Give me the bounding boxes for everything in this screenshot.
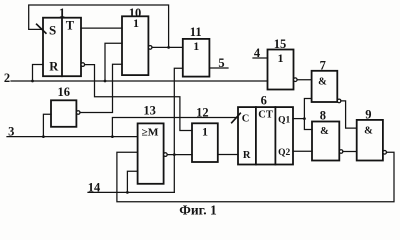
gate 15 box (268, 50, 294, 90)
wire Q1 branch to lower input of gate 7 (304, 99, 311, 119)
svg-text:&: & (364, 125, 373, 136)
wire output of gate 15 to upper input of gate 7 (297, 79, 312, 81)
wire Q1 branch to upper input of gate 8 (304, 119, 312, 130)
gate 10 box (122, 16, 148, 75)
svg-text:9: 9 (365, 107, 371, 121)
wire branch 14 to third input of element 13 (127, 171, 137, 192)
svg-text:CT: CT (258, 110, 273, 121)
svg-text:6: 6 (261, 94, 267, 108)
svg-text:1: 1 (193, 39, 199, 53)
node A junction on gate 10 output (167, 46, 170, 49)
output bubble of gate 9 (383, 151, 387, 155)
junction on element 13 output net (173, 153, 176, 156)
dynamic input slash on C of counter 6 (232, 113, 241, 122)
wire branch 3 to C input of counter 6 (112, 118, 238, 137)
svg-text:1: 1 (133, 16, 139, 30)
wire output of gate 10 to input of gate 11 (152, 46, 183, 48)
input terminal wire 3 (7, 136, 138, 138)
wire output of element 13 to lower input of gate 12 (167, 154, 192, 156)
wire branch 2 to middle input of gate 10 (105, 43, 122, 81)
gate 9 box (357, 120, 383, 161)
counter 6 left divider (255, 107, 257, 164)
wire net element 13 output to lower input of gate 11 and to wire 14 (174, 68, 183, 192)
svg-text:3: 3 (8, 125, 14, 139)
wire T output of trigger 1 to input of gate 10 (81, 27, 122, 29)
svg-text:14: 14 (88, 180, 101, 194)
wire output of gate 8 to lower input of gate 9 (343, 151, 357, 153)
output bubble of gate 8 (339, 150, 343, 154)
svg-text:≥M: ≥M (142, 128, 159, 139)
svg-text:12: 12 (196, 106, 209, 120)
counter 6 right divider (274, 107, 276, 164)
svg-text:C: C (242, 114, 250, 125)
junction on wire 3 at gate 16 branch (42, 135, 45, 138)
wire branch 3 to input of gate 16 (43, 114, 51, 136)
svg-text:15: 15 (274, 37, 287, 51)
svg-text:Фиг. 1: Фиг. 1 (179, 203, 217, 218)
gate 16 box (51, 100, 76, 127)
gate 11 box (183, 39, 210, 77)
dynamic input slash on S of trigger 1 (37, 24, 46, 33)
junction on wire 2 at gate 10 branch (104, 80, 107, 83)
junction on wire 2 at R branch (31, 80, 34, 83)
wire branch 2 to R input of trigger 1 (33, 65, 44, 82)
gate 8 box (312, 122, 339, 161)
output bubble of gate 16 (76, 111, 80, 115)
output bubble of gate 15 (294, 78, 298, 82)
svg-text:R: R (49, 59, 59, 73)
output bubble of element 13 (164, 153, 168, 157)
gate 7 box (312, 71, 338, 102)
svg-text:2: 2 (4, 71, 10, 85)
wire output of trigger 1 to inputs of gates 11 and 12 (85, 65, 192, 131)
svg-text:S: S (49, 23, 56, 38)
svg-text:8: 8 (320, 108, 326, 122)
wire Q1 output of counter 6 (293, 118, 304, 120)
junction on wire 3 at C branch (111, 135, 114, 138)
svg-text:11: 11 (190, 25, 202, 39)
svg-text:1: 1 (278, 51, 284, 65)
svg-text:R: R (243, 150, 251, 161)
svg-text:&: & (320, 126, 329, 137)
wire Q2 output of counter 6 to lower input of gate 8 (293, 150, 312, 152)
input terminal wire 14 (88, 191, 174, 193)
svg-text:T: T (66, 19, 75, 33)
wire feedback from node A to S input of trigger 1 (29, 5, 169, 47)
counter 6 box (238, 107, 293, 164)
junction on wire 14 (126, 191, 129, 194)
wire feedback output of gate 9 to second input of element 13 (117, 152, 394, 201)
output bubble of gate 7 (337, 99, 341, 103)
gate 12 box (192, 123, 218, 162)
svg-text:Q2: Q2 (278, 148, 290, 158)
svg-text:4: 4 (254, 46, 261, 60)
inverted output bubble of trigger 1 (81, 63, 85, 67)
trigger 1 box (43, 18, 81, 76)
input terminal wire 2 (11, 80, 268, 82)
svg-text:5: 5 (218, 56, 224, 70)
svg-text:Q1: Q1 (278, 116, 290, 126)
svg-text:13: 13 (143, 104, 156, 118)
junction on Q1 net (303, 117, 306, 120)
wire output of gate 7 to upper input of gate 9 (341, 101, 357, 128)
svg-text:7: 7 (320, 58, 326, 72)
svg-text:&: & (318, 76, 327, 87)
output bubble of gate 10 (148, 46, 152, 50)
svg-text:16: 16 (57, 85, 70, 99)
wire output of gate 16 to lower input of gate 10 (80, 64, 122, 112)
majority element 13 box (138, 123, 164, 183)
wire output of gate 12 to R input of counter 6 (218, 154, 238, 156)
input terminal wire 4 (253, 57, 268, 59)
wire output 5 of gate 11 (209, 67, 228, 69)
svg-text:1: 1 (202, 125, 208, 139)
svg-text:1: 1 (59, 6, 65, 20)
trigger 1 S/T divider (61, 18, 63, 76)
